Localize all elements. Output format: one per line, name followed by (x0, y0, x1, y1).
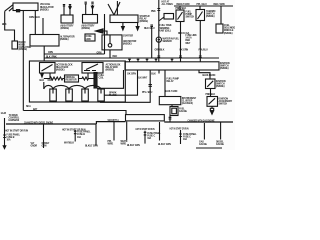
svg-text:DK GRN: DK GRN (180, 49, 189, 51)
svg-text:BLK WHT: BLK WHT (137, 78, 148, 80)
wire bundle diagonal 1 (5, 5, 13, 12)
svg-text:(INSIDE): (INSIDE) (106, 70, 115, 72)
battery B2 box (83, 15, 98, 24)
svg-text:WATER IN FUEL: WATER IN FUEL (163, 38, 180, 41)
svg-text:DK GRN: DK GRN (127, 74, 136, 76)
svg-text:GAUGE: GAUGE (216, 143, 225, 146)
svg-text:CHANGED WITH GAS ENGINE: CHANGED WITH GAS ENGINE (188, 118, 215, 122)
battery B2 connector 2 (91, 2, 93, 4)
svg-text:FUSE PANEL: FUSE PANEL (147, 132, 161, 135)
svg-text:(GAUGES): (GAUGES) (182, 102, 193, 105)
relay A arrow (41, 74, 43, 77)
junction block box (126, 115, 165, 121)
fuel pump switch S1 bottom wire (180, 22, 182, 62)
svg-text:RESISTOR: RESISTOR (66, 80, 77, 82)
oil pressure switch S2 bottom wire (199, 21, 201, 62)
starter relay arrow 1 (122, 27, 125, 31)
svg-text:14 GA: 14 GA (185, 37, 192, 40)
fuse column 3 wire (74, 130, 76, 142)
spark plug 3 (82, 89, 89, 101)
svg-text:SWITCH: SWITCH (186, 17, 195, 19)
svg-text:WHT: WHT (185, 43, 191, 45)
svg-text:HOT AT: HOT AT (162, 1, 170, 4)
starter relay feed diagonal 1 (108, 4, 114, 15)
svg-text:ACCESSORY: ACCESSORY (219, 100, 233, 103)
svg-text:(INSIDE): (INSIDE) (56, 70, 65, 72)
svg-text:ORN: ORN (48, 52, 53, 54)
svg-text:(INSIDE): (INSIDE) (216, 86, 225, 88)
svg-text:SECURITY A: SECURITY A (108, 118, 119, 122)
starter motor inner stub (109, 35, 111, 44)
water in fuel sensor mark (158, 39, 160, 41)
svg-text:(INSIDE): (INSIDE) (40, 9, 49, 11)
wire ORN horizontal (44, 53, 104, 55)
svg-text:(INSIDE): (INSIDE) (61, 28, 70, 30)
fuse column 9 wire (180, 130, 182, 144)
fusible link wedge (96, 29, 104, 33)
svg-text:(4) BATTERY: (4) BATTERY (82, 25, 95, 28)
battery B2 connector 1 (85, 2, 87, 4)
right column arrow (211, 111, 214, 114)
svg-text:BAT: BAT (33, 108, 38, 111)
ignition switch top stub 3 (146, 59, 149, 62)
spark plug arc 3 (69, 85, 85, 89)
relay B stub (87, 73, 89, 78)
svg-text:(INSIDE): (INSIDE) (60, 39, 69, 41)
svg-text:10A: 10A (7, 139, 11, 142)
svg-text:HARNESS: HARNESS (9, 119, 20, 122)
alternator bottom stub (43, 46, 45, 61)
svg-text:BLK/LT GRN: BLK/LT GRN (165, 91, 178, 93)
column 11 wire (220, 122, 222, 140)
oil pressure switch S2 box (196, 10, 205, 21)
fusible link label box (85, 34, 95, 41)
spark plug arc 1 (44, 85, 53, 89)
switch R1 to R2 wire (210, 89, 212, 97)
battery B2 wire arrow (91, 6, 93, 9)
svg-text:FUEL TANK: FUEL TANK (160, 24, 172, 27)
instrument cluster box (159, 97, 181, 105)
divider bracket segment (96, 122, 125, 124)
svg-text:BLK/LT GRN: BLK/LT GRN (85, 145, 98, 147)
right column feed (199, 70, 210, 79)
svg-text:(INSIDE): (INSIDE) (224, 33, 233, 35)
module relay box B (82, 63, 103, 74)
svg-text:TO MAIN: TO MAIN (9, 114, 18, 117)
starter relay arrow 2 (136, 27, 139, 31)
svg-text:RED / BLU: RED / BLU (144, 28, 155, 30)
starter relay feed diagonal 2 (114, 2, 120, 15)
wire RED main horizontal (44, 57, 219, 59)
svg-text:BLK / PNK: BLK / PNK (46, 56, 57, 58)
svg-text:(INSIDE): (INSIDE) (140, 21, 149, 23)
spark plug 1 (50, 89, 57, 101)
svg-text:BLK/LT GRN: BLK/LT GRN (203, 75, 216, 77)
svg-text:HOT IN START OR RUN: HOT IN START OR RUN (5, 129, 28, 133)
battery B1 connector 2 (69, 5, 71, 8)
svg-text:SPARK: SPARK (109, 92, 117, 95)
relay A stub 1 (41, 73, 43, 74)
hot at all times bus (174, 5, 233, 7)
svg-text:ALL TIMES: ALL TIMES (162, 3, 174, 6)
wire starter drop (104, 14, 106, 54)
svg-text:SWITCH: SWITCH (219, 104, 228, 106)
svg-text:BLK/LT GRN: BLK/LT GRN (158, 144, 171, 146)
ignition switch bottom stub BLK (158, 70, 160, 74)
column 10 wire (203, 123, 205, 140)
svg-text:LINK: LINK (86, 39, 91, 41)
spark plug 2 (66, 89, 73, 101)
spark plug 1 electrode (52, 89, 54, 94)
svg-text:HOT IN START OR RUN: HOT IN START OR RUN (170, 126, 189, 130)
svg-text:PNK/BLK: PNK/BLK (206, 94, 216, 96)
spark plug 2 electrode (68, 89, 70, 94)
svg-text:RELAY BOX: RELAY BOX (56, 66, 69, 69)
svg-text:ORN: ORN (48, 80, 53, 82)
fuel pump switch S1 blade (178, 12, 183, 20)
svg-text:10A: 10A (147, 137, 151, 140)
svg-text:GAS: GAS (199, 141, 204, 144)
svg-text:GRN: GRN (42, 145, 47, 147)
connector ticks dk grn line (179, 56, 182, 58)
svg-text:FUSE PANEL: FUSE PANEL (77, 131, 91, 134)
column 2 wire (43, 124, 45, 148)
fuel gauge tail connector (169, 117, 172, 119)
relay B inner dash (84, 70, 96, 72)
svg-text:ORN: ORN (97, 52, 102, 54)
pickup coil relay box A (40, 63, 56, 74)
right column connector (210, 108, 213, 110)
gauge to fuel gauge wire (171, 105, 173, 107)
svg-text:RELAY: RELAY (140, 18, 148, 21)
svg-text:RELAY: RELAY (167, 80, 175, 83)
ignition coil bar (94, 73, 97, 89)
svg-text:VOLTAGE: VOLTAGE (40, 3, 51, 6)
fuel pump switch drop (179, 6, 181, 10)
spark plug 3 electrode (84, 89, 86, 94)
alternator box (30, 35, 59, 47)
svg-text:HOT IN START OR RUN: HOT IN START OR RUN (136, 127, 155, 131)
svg-text:RELAY BOX: RELAY BOX (106, 66, 119, 69)
svg-text:BLK/LT GRN: BLK/LT GRN (127, 145, 140, 147)
spark plug arc 4 (85, 85, 101, 89)
wire bundle diagonal 2 (9, 8, 13, 12)
resistor squiggle left (44, 77, 65, 80)
starter motor box (102, 35, 122, 50)
starter motor circle (108, 44, 112, 48)
column 5 wire (113, 122, 115, 141)
svg-text:(INSIDE): (INSIDE) (206, 16, 215, 18)
fuse column 1 arrow (3, 146, 6, 149)
svg-text:(4) BATTERY: (4) BATTERY (61, 25, 74, 28)
starter relay feed vertical (116, 1, 118, 15)
wire RED/BLU connector stub (150, 25, 153, 26)
battery B1 wire 1 (63, 8, 65, 16)
svg-text:PNK / BLK: PNK / BLK (176, 8, 187, 10)
connector ticks fuel tank line (157, 56, 160, 58)
bottom connector line (196, 147, 222, 149)
spark plug 4 (98, 89, 105, 101)
switch R2 blade (209, 98, 216, 104)
svg-text:BLK: BLK (2, 24, 7, 26)
ignition switch top stub 5 (171, 59, 174, 62)
svg-text:(INSIDE): (INSIDE) (220, 68, 229, 70)
relay A stub 2 (49, 73, 51, 79)
fuel tank sender box (164, 14, 174, 20)
svg-text:14-28: 14-28 (1, 112, 7, 115)
oil pressure switch drop (199, 6, 201, 10)
gauge feed wire (164, 70, 166, 97)
tach wire stepped 3 (100, 70, 150, 102)
divider rule left (6, 123, 96, 125)
svg-text:GAUGE: GAUGE (179, 110, 188, 113)
fuel gauge tail wire (169, 116, 171, 123)
svg-text:RED: RED (113, 56, 118, 58)
svg-text:ORN/BLK: ORN/BLK (155, 49, 165, 51)
relay A blade (42, 65, 53, 72)
battery B1 wire arrow (69, 7, 71, 10)
module box (65, 75, 79, 82)
divider rule right (164, 121, 233, 123)
resistor squiggle right (79, 77, 95, 80)
battery B1 box (61, 15, 73, 23)
svg-text:CHANGED WITH DIESEL ENGINE: CHANGED WITH DIESEL ENGINE (24, 120, 53, 124)
battery B1 wire 2 (69, 8, 71, 16)
svg-text:ACTION BLOCK: ACTION BLOCK (56, 64, 73, 67)
fuel tank wire connector (157, 9, 160, 11)
svg-text:BLK: BLK (151, 74, 156, 76)
svg-text:WIRE: WIRE (121, 144, 127, 146)
svg-text:FUSE PANEL: FUSE PANEL (7, 134, 21, 137)
fusible link lead (103, 31, 107, 35)
gauge feed connector (149, 85, 152, 87)
distributor enclosure (29, 61, 125, 102)
oil pressure switch S2 blade (198, 12, 203, 20)
fuse column 7 symbol (144, 132, 147, 135)
starter relay box top (110, 15, 138, 23)
svg-text:GNDR: GNDR (31, 145, 38, 147)
capacitor C1 box (12, 41, 18, 49)
fuel solenoid drop (220, 6, 222, 24)
svg-text:FUSE: FUSE (86, 36, 92, 38)
fuel tank wire vertical (158, 0, 160, 62)
battery B1 connector 1 (63, 5, 65, 8)
svg-text:SENSOR: SENSOR (163, 41, 173, 43)
wire to alternator second (42, 18, 44, 35)
svg-text:ACTION BLOK: ACTION BLOK (106, 64, 121, 67)
svg-text:NCA: NCA (26, 105, 31, 108)
switch R1 blade (207, 81, 213, 87)
water in fuel sensor circle (156, 37, 161, 42)
connector ticks ppl line (199, 56, 202, 58)
fuse column 1 symbol (3, 135, 6, 138)
starter motor bottom stub (109, 50, 111, 58)
svg-text:BLK: BLK (40, 80, 45, 82)
svg-text:REGULATOR: REGULATOR (40, 6, 54, 9)
column 8 wire (159, 122, 161, 141)
battery B2 wire 2 (92, 5, 94, 15)
voltage regulator terminal (17, 10, 20, 12)
tach wire stepped 1 (97, 70, 124, 88)
voltage regulator U1 box (13, 3, 38, 11)
wire ORN/BLK regulator to bottom-left run (22, 11, 24, 111)
svg-text:STARTER: STARTER (123, 34, 133, 37)
bat junction long wire (23, 111, 126, 115)
wire RED/BLU vertical (151, 26, 153, 58)
svg-text:ALTERNATOR: ALTERNATOR (60, 36, 75, 39)
svg-text:COIL: COIL (99, 78, 105, 80)
spark plug 4 electrode (100, 89, 102, 94)
fuse column 9 symbol (179, 134, 182, 137)
svg-text:PPL / BLU: PPL / BLU (197, 4, 208, 6)
svg-text:PPL / BLU: PPL / BLU (142, 92, 153, 94)
ignition run switch box R1 (206, 79, 216, 89)
fuse column 3 symbol (74, 131, 77, 134)
svg-text:WHT/BLK: WHT/BLK (64, 142, 74, 144)
wire BLK left (5, 11, 15, 41)
right column tail (211, 106, 213, 108)
relay B blade (86, 64, 98, 70)
svg-text:GAUGE: GAUGE (199, 143, 208, 146)
fuse column 1 wire (4, 118, 6, 146)
spark plug arc 2 (53, 85, 69, 89)
svg-text:AND MOTOR: AND MOTOR (123, 40, 137, 43)
svg-text:RED/LT GRN: RED/LT GRN (177, 4, 190, 6)
starter relay arrow stub 1 (122, 23, 124, 27)
svg-text:UNIT (DSL): UNIT (DSL) (160, 30, 171, 32)
tach wire stepped 2 (105, 70, 138, 95)
svg-text:PPL/BLU: PPL/BLU (199, 49, 209, 51)
svg-text:(INSIDE): (INSIDE) (123, 44, 132, 46)
svg-text:(INSIDE): (INSIDE) (82, 28, 91, 30)
svg-text:STARTER: STARTER (140, 15, 150, 18)
fuse column 7 wire (144, 131, 146, 144)
fuel gauge inner box (172, 108, 177, 114)
plug wire from relay A stub (43, 82, 45, 89)
svg-text:ORN / BLK: ORN / BLK (29, 17, 40, 19)
column 4 wire (95, 124, 97, 146)
ignition switch top stub 1 (128, 59, 131, 62)
svg-text:WIRE: WIRE (108, 144, 114, 146)
ignition switch box (125, 62, 219, 70)
accessory switch box R2 (207, 97, 218, 107)
fuel tank sender diagonal (159, 17, 164, 21)
svg-text:(INSIDE): (INSIDE) (19, 49, 28, 51)
ignition switch top stub 4 (155, 59, 158, 62)
ignition switch top stub 2 (137, 59, 140, 62)
fuel pump switch S1 box (176, 10, 184, 22)
battery B2 wire 1 (85, 4, 87, 15)
svg-text:RED / GRN: RED / GRN (214, 4, 225, 6)
starter relay arrow stub 2 (137, 23, 139, 27)
fuel gauge outer box (170, 107, 178, 116)
svg-text:10A: 10A (183, 138, 187, 141)
svg-text:10A: 10A (77, 136, 81, 139)
svg-text:PNK: PNK (151, 11, 156, 13)
svg-text:PLUGS: PLUGS (109, 95, 117, 97)
fuel solenoid box (216, 24, 223, 33)
wire regulator to alternator (34, 11, 36, 35)
column 6 wire (126, 122, 128, 141)
svg-text:FUSE PANEL: FUSE PANEL (183, 133, 197, 136)
